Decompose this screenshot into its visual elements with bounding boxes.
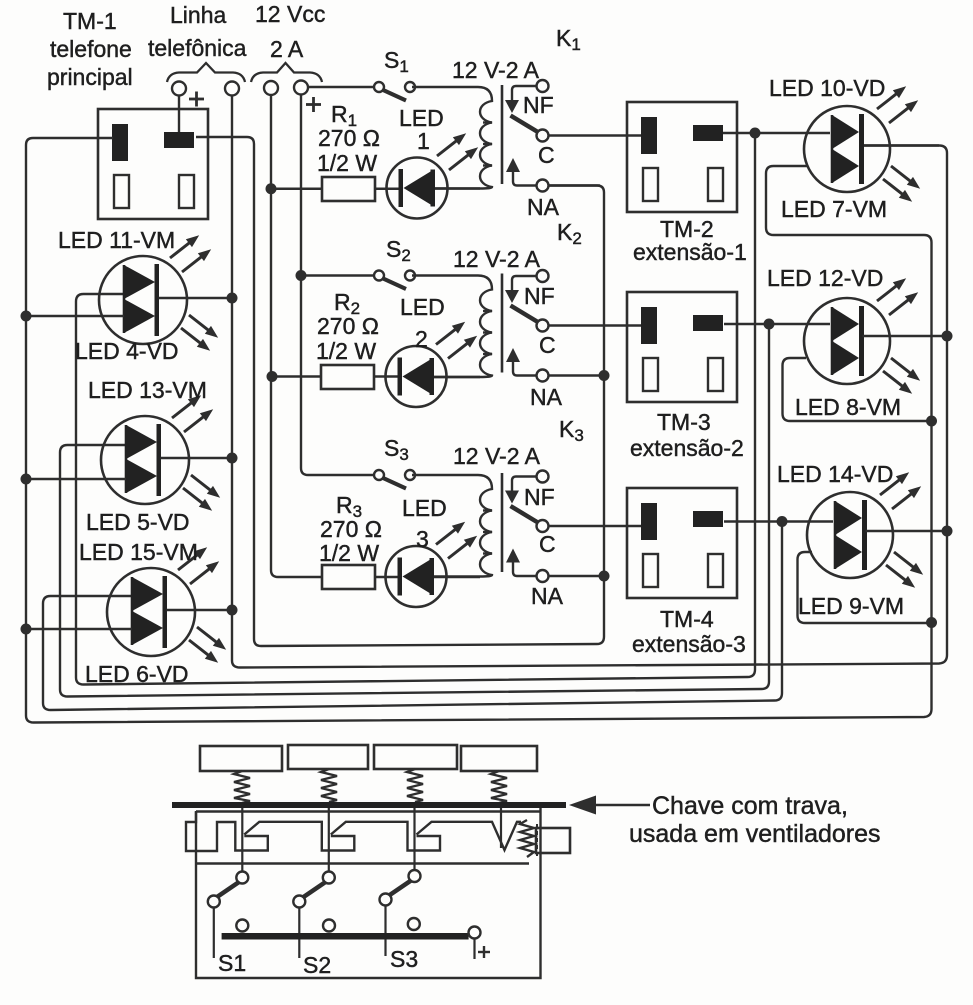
latch dashed edge (536, 824, 538, 857)
wire R3 to LED3 (375, 576, 398, 578)
node LED8 box junction (926, 416, 937, 427)
svg-text:12 V-2 A: 12 V-2 A (453, 443, 541, 469)
node R1 tap (266, 183, 277, 194)
svg-text:270 Ω: 270 Ω (318, 125, 380, 151)
wire R2 to LED2 (374, 375, 398, 377)
contact terminal 3 (408, 918, 420, 930)
comb bottom edge (196, 862, 529, 864)
svg-text:2: 2 (415, 326, 428, 352)
svg-text:C: C (539, 332, 556, 358)
svg-text:S2: S2 (303, 952, 331, 978)
svg-text:LED 15-VM: LED 15-VM (79, 539, 198, 565)
spring 2 (321, 769, 337, 802)
wire bus TM-2 to LED4 (76, 133, 755, 685)
wire K1 NA to bus (549, 184, 601, 186)
socket TM-2 (627, 102, 737, 212)
socket TM-1 (98, 109, 208, 219)
node K3 NA junction (599, 571, 610, 582)
wire LED8 anode box (783, 358, 932, 421)
svg-text:NF: NF (524, 283, 555, 309)
svg-text:Linha: Linha (170, 2, 226, 28)
svg-text:Chave com trava,: Chave com trava, (652, 792, 848, 820)
wire K3 NA to bus (549, 575, 605, 577)
wire bus TM-3 to LED5 (60, 324, 769, 697)
svg-text:NF: NF (524, 484, 555, 510)
spring 1 (234, 771, 250, 803)
wire LED13/5 cathode (161, 457, 233, 459)
pin 1 (241, 808, 243, 871)
slider comb body (186, 811, 521, 851)
wire R1 to LED1 (375, 188, 399, 190)
wire K3 C to TM-4 (549, 525, 644, 527)
pin 3 (413, 808, 415, 870)
common bar (222, 933, 469, 940)
pointer arrow (569, 796, 596, 815)
relay K2 contacts (505, 270, 549, 382)
LED 11-VM / LED 4-VD (99, 231, 221, 354)
svg-text:C: C (538, 142, 555, 168)
relay K3 coil (412, 473, 502, 577)
resistor R1 (322, 177, 375, 201)
svg-text:TM-4: TM-4 (660, 606, 714, 632)
relay K1 coil (412, 85, 502, 189)
wire LED10/7 cathode (864, 144, 939, 146)
svg-text:1/2 W: 1/2 W (319, 540, 379, 566)
wire plus tap to S2 (301, 274, 374, 276)
switch S2 (374, 271, 415, 290)
resistor R2 (321, 365, 374, 389)
switch S3 mech (409, 870, 421, 882)
plus sign 12Vcc (306, 103, 321, 106)
brace linha telefônica (167, 63, 245, 82)
wire K2 C to TM-3 (549, 324, 644, 326)
svg-text:LED 6-VD: LED 6-VD (85, 661, 189, 687)
svg-text:LED 9-VM: LED 9-VM (798, 593, 904, 619)
LED 3 (386, 518, 481, 607)
svg-text:usada em ventiladores: usada em ventiladores (629, 820, 881, 848)
contact terminal 1 (236, 920, 248, 932)
socket TM-4 (627, 488, 737, 598)
wire LED3 anode to coil (432, 576, 480, 578)
svg-text:C: C (539, 531, 556, 557)
terminal 12Vcc plus (294, 81, 308, 95)
svg-text:LED 14-VD: LED 14-VD (777, 461, 893, 487)
LED 13-VM / LED 5-VD (101, 391, 223, 514)
svg-text:12 V-2 A: 12 V-2 A (453, 246, 541, 272)
LED 1 (387, 129, 482, 218)
svg-text:12 Vcc: 12 Vcc (255, 1, 325, 27)
terminal linha B (225, 82, 239, 96)
socket TM-3 (627, 292, 737, 402)
wire LED11 anode (26, 315, 124, 317)
node TM-2 output (750, 128, 761, 139)
resistor R3 (322, 565, 375, 589)
LED 15-VM / LED 6-VD (107, 543, 229, 666)
button 3 (374, 745, 457, 769)
wire plus to S1 (309, 86, 375, 88)
svg-text:telefone: telefone (50, 36, 132, 62)
node LED13 anode tap (21, 474, 32, 485)
svg-text:telefônica: telefônica (148, 35, 247, 61)
wire linha B down and cathode bus to right LEDs (232, 96, 947, 668)
wire K2 NA to bus (549, 374, 605, 376)
LED 12-VD / LED 8-VM (804, 274, 923, 397)
svg-text:1/2 W: 1/2 W (317, 150, 377, 176)
wire TM-1 left bar to VM bus (26, 138, 932, 723)
svg-text:1: 1 (417, 128, 430, 154)
wire bus TM-4 to LED6 (43, 522, 782, 711)
LED 10-VD / LED 7-VM (804, 82, 923, 205)
svg-text:S1: S1 (218, 950, 246, 976)
svg-text:extensão-3: extensão-3 (632, 631, 746, 657)
svg-text:extensão-1: extensão-1 (633, 239, 747, 265)
plus terminal (469, 927, 481, 939)
svg-text:2 A: 2 A (270, 36, 304, 62)
svg-text:NA: NA (531, 583, 564, 609)
enclosure box (196, 808, 541, 978)
wire 12V plus rail (301, 95, 374, 476)
svg-text:LED: LED (400, 294, 445, 320)
pin 4 (500, 808, 502, 848)
latch spring (520, 820, 534, 857)
wire TM-1 right bar to NA bus (196, 137, 604, 646)
relay K2 coil (412, 274, 502, 378)
wire LED11/4 cathode (159, 297, 233, 299)
svg-text:LED: LED (402, 495, 447, 521)
pin 2 (328, 808, 330, 871)
svg-text:NF: NF (523, 92, 554, 118)
svg-text:extensão-2: extensão-2 (630, 435, 744, 461)
wire LED15/6 cathode (167, 609, 233, 611)
svg-text:LED 7-VM: LED 7-VM (781, 196, 887, 222)
node K2 NA junction (599, 370, 610, 381)
node LED11 anode tap (21, 311, 32, 322)
node LED9 box junction (926, 617, 937, 628)
wire LED13 anode (26, 478, 126, 480)
switch S3 (374, 470, 415, 489)
wire LED1 anode to coil (433, 187, 480, 189)
wire LED9 anode box (798, 552, 932, 623)
terminal 12Vcc minus (264, 81, 278, 95)
wire K1 C to TM-2 (549, 134, 644, 136)
svg-text:TM-1: TM-1 (63, 8, 117, 34)
relay K3 contacts (505, 471, 549, 583)
svg-text:12 V-2 A: 12 V-2 A (452, 57, 540, 83)
svg-text:TM-3: TM-3 (657, 409, 711, 435)
svg-text:1/2 W: 1/2 W (316, 338, 376, 364)
svg-text:LED 8-VM: LED 8-VM (795, 394, 901, 420)
svg-text:LED 10-VD: LED 10-VD (769, 75, 885, 101)
wire LED2 anode to coil (432, 376, 480, 378)
node LED11/4 cathode junction (227, 293, 238, 304)
latch tab (536, 828, 570, 853)
svg-text:LED 11-VM: LED 11-VM (58, 227, 175, 253)
switch S1 mech (236, 872, 248, 884)
node LED13/5 cathode junction (227, 453, 238, 464)
wire R2 left (272, 375, 321, 377)
switch S2 mech (323, 872, 335, 884)
button 2 (288, 745, 368, 769)
button 1 (200, 746, 282, 771)
terminal linha A (172, 82, 186, 96)
wire TM-4 to LED14 (724, 520, 833, 522)
wire LED15 anode (26, 628, 132, 630)
node R2 tap (267, 371, 278, 382)
LED 14-VD / LED 9-VM (807, 468, 926, 591)
actuator bar (172, 802, 566, 808)
node LED15 anode tap (21, 624, 32, 635)
svg-text:270 Ω: 270 Ω (317, 313, 379, 339)
wire TM-2 to LED10 (723, 132, 830, 134)
svg-text:NA: NA (527, 194, 560, 220)
contact terminal 2 (323, 920, 335, 932)
plus sign linha (189, 98, 204, 101)
wire LED12/8 cathode (863, 335, 948, 337)
svg-text:LED 13-VM: LED 13-VM (88, 377, 207, 403)
node LED14/9 cathode junction (942, 526, 953, 537)
node TM-4 output (777, 516, 788, 527)
svg-text:principal: principal (47, 64, 133, 90)
button 4 (461, 746, 537, 771)
node S2 tap (296, 270, 307, 281)
wire TM-3 to LED12 (724, 323, 830, 325)
svg-text:LED 12-VD: LED 12-VD (767, 265, 883, 291)
node LED12/8 cathode junction (942, 331, 953, 342)
wire R1 left (271, 188, 322, 190)
svg-text:3: 3 (416, 526, 429, 552)
svg-text:S3: S3 (390, 946, 418, 972)
switch S1 (374, 82, 415, 101)
wire 12V minus rail (271, 95, 322, 577)
node LED15/6 cathode junction (227, 605, 238, 616)
wire terminal linha A to TM-1 (178, 96, 180, 136)
LED 2 (386, 318, 481, 407)
svg-text:270 Ω: 270 Ω (320, 516, 382, 542)
spring 3 (407, 769, 423, 802)
svg-text:NA: NA (530, 384, 563, 410)
svg-text:LED 5-VD: LED 5-VD (86, 509, 190, 535)
relay K1 contacts (505, 80, 549, 192)
spring 4 (491, 771, 507, 803)
node TM-3 output (764, 319, 775, 330)
svg-text:LED 4-VD: LED 4-VD (75, 338, 179, 364)
wire LED14/9 cathode (866, 530, 948, 532)
brace 12Vcc (251, 63, 322, 82)
